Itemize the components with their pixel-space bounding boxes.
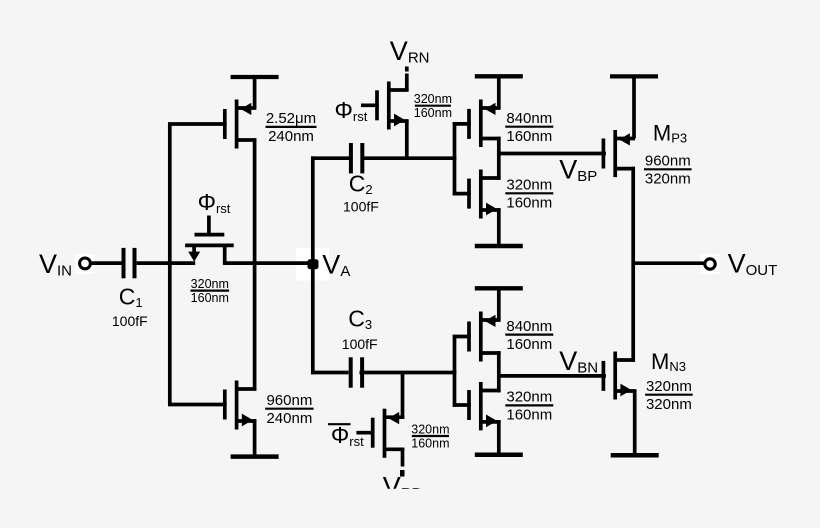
supply rail bar over M_P3 (610, 76, 658, 138)
svg-text:160nm: 160nm (411, 436, 449, 450)
wire bottom cascode gate bus (453, 335, 457, 407)
ground of inverter (231, 419, 279, 456)
wire top cascode middle node (497, 137, 501, 180)
transistor V_RP reset switch 320nm/160nm (356, 409, 404, 458)
svg-text:840nm: 840nm (506, 110, 552, 127)
svg-text:960nm: 960nm (266, 392, 312, 409)
svg-text:320nm: 320nm (414, 92, 452, 106)
value label 960nm/240nm (265, 392, 313, 427)
capacitor C3 (351, 357, 362, 387)
transistor M_P3 960nm/320nm (603, 130, 635, 177)
wire V_RP switch drain to C3 wire (401, 371, 405, 419)
value label 2.52um/240nm (266, 110, 317, 145)
svg-text:240nm: 240nm (268, 128, 314, 145)
value label 960nm/320nm of M_P3 (644, 153, 692, 188)
svg-text:160nm: 160nm (506, 128, 552, 145)
wire input gate bus (vertical) (168, 124, 172, 405)
svg-text:320nm: 320nm (506, 177, 552, 194)
svg-text:160nm: 160nm (414, 106, 452, 120)
wire C2 to cascode gate bus (361, 156, 456, 160)
svg-text:160nm: 160nm (506, 407, 552, 424)
capacitor C1 (124, 248, 135, 278)
value label 320nm/320nm of M_N3 (645, 378, 693, 413)
transistor V_RN reset switch 320nm/160nm (361, 82, 409, 130)
value label 840nm/160nm (top cascode) (505, 110, 553, 145)
wire top cascode gate bus (453, 122, 457, 195)
wire V_A to C2 (311, 156, 350, 160)
transistor bottom cascode lower 320nm/160nm (453, 382, 501, 430)
wire V_A to C3 (311, 371, 349, 375)
svg-text:160nm: 160nm (191, 291, 229, 305)
transistor reset switch 320nm/160nm (horizontal, across inverter) (185, 216, 234, 265)
wire V_BN (cascode to M_N3 gate) (499, 374, 605, 378)
node highlight behind V_OUT terminal (700, 254, 720, 274)
node A junction dot (308, 259, 319, 269)
transistor top cascode lower 320nm/160nm (453, 170, 501, 219)
wire switch output to node V_A (225, 261, 315, 265)
svg-text:320nm: 320nm (506, 389, 552, 406)
ground of bottom cascode (475, 420, 523, 455)
transistor NMOS 960nm/240nm (inverter pull-down) (168, 381, 256, 430)
label V_RP (clipped at figure edge) (383, 471, 422, 502)
supply rail bar over inverter (231, 77, 279, 108)
value label 320nm/160nm of V_RN switch (414, 92, 452, 120)
wire output column (631, 167, 635, 362)
wire V_BP (cascode to M_P3 gate) (499, 152, 605, 156)
value label 320nm/160nm (bottom cascode) (505, 389, 553, 424)
wire C3 to cascode gate bus (360, 371, 457, 375)
svg-text:320nm: 320nm (646, 396, 692, 413)
wire inverter output column (253, 139, 257, 391)
svg-text:840nm: 840nm (506, 318, 552, 335)
wire C1 to input gate node (137, 261, 196, 265)
value label 840nm/160nm (bottom cascode) (505, 318, 553, 353)
svg-text:320nm: 320nm (191, 277, 229, 291)
label Phi_rst-bar of V_RP switch (328, 422, 364, 449)
transistor M_N3 320nm/320nm (603, 352, 635, 400)
svg-text:320nm: 320nm (646, 378, 692, 395)
wire to V_OUT terminal (633, 261, 705, 265)
transistor PMOS 2.52um/240nm (inverter pull-up) (168, 100, 256, 149)
svg-text:100fF: 100fF (343, 199, 379, 215)
svg-text:240nm: 240nm (266, 410, 312, 427)
value label 320nm/160nm (top cascode) (505, 177, 553, 212)
svg-text:320nm: 320nm (645, 171, 691, 188)
transistor top cascode upper 840nm/160nm (453, 100, 501, 148)
supply rail bar over bottom cascode (475, 288, 523, 320)
transistor bottom cascode upper 840nm/160nm (453, 312, 501, 362)
svg-text:960nm: 960nm (645, 153, 691, 170)
node highlight behind V_IN terminal (75, 254, 95, 274)
value label 320nm/160nm of V_RP switch (411, 422, 449, 450)
svg-text:320nm: 320nm (411, 422, 449, 436)
terminal V_OUT (open circle) (705, 259, 715, 269)
svg-text:160nm: 160nm (506, 336, 552, 353)
supply rail bar over top cascode (475, 76, 523, 108)
wire V_RN switch to C2 wire (405, 120, 409, 159)
svg-text:100fF: 100fF (342, 336, 378, 352)
wire bottom cascode middle node (497, 351, 501, 392)
svg-text:100fF: 100fF (112, 313, 148, 329)
wire dashed stub above V_RP (400, 448, 405, 477)
terminal V_IN (open circle) (80, 258, 91, 269)
capacitor C2 (351, 143, 362, 173)
wire dashed stub below V_RN (405, 67, 409, 92)
value label 320nm/160nm of inverter reset switch (191, 277, 230, 305)
node highlight behind node V_A (296, 248, 329, 281)
svg-text:160nm: 160nm (506, 195, 552, 212)
wire V_A bus (vertical) (311, 156, 315, 374)
svg-text:2.52μm: 2.52μm (266, 110, 316, 127)
wire V_IN terminal to C1 (91, 261, 122, 265)
ground of top cascode (475, 208, 523, 246)
ground of M_N3 (611, 389, 659, 455)
